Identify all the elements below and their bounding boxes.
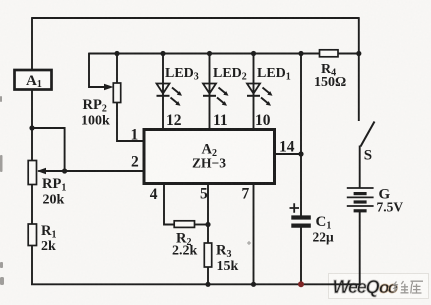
node LED1 rail junction: [251, 51, 256, 56]
battery G: [347, 187, 404, 215]
switch S: [361, 122, 375, 164]
node pin7 bottom rail junction: [251, 282, 256, 287]
wire RP2 bottom to IC pin 1: [117, 103, 144, 142]
wire R1 bottom to bottom rail: [31, 246, 33, 285]
potentiometer RP1: [28, 161, 66, 208]
node LED3 rail junction: [160, 51, 165, 56]
wire A1 bottom to junction: [31, 90, 33, 128]
LED1: [247, 54, 291, 130]
node rail junction to pin14/C1 column: [298, 51, 303, 56]
pin 10 label: [255, 112, 271, 129]
pin 7 wire: [253, 184, 255, 286]
resistor R1: [28, 223, 56, 254]
A1 amplifier box: [15, 70, 52, 90]
resistor R2: [172, 221, 208, 259]
IC U1 A2 ZH-3: [144, 130, 275, 184]
pin 5 wire: [207, 184, 209, 286]
node junction below A1: [29, 125, 34, 130]
potentiometer RP2: [81, 54, 121, 129]
pin 11 label: [213, 112, 228, 129]
node R4 right junction: [356, 51, 361, 56]
wire branch junction to pin2 net: [32, 128, 65, 171]
pin 5 label: [200, 186, 208, 203]
node junction pin2 wire: [62, 168, 67, 173]
pin 14 wire: [275, 153, 302, 155]
pin 7 label: [242, 186, 250, 203]
watermark WeeQoo维库: [329, 274, 429, 299]
wire junction to RP1 top: [31, 128, 33, 161]
wire RP2 left branch to wiper: [89, 53, 106, 87]
pin 12 label: [166, 112, 182, 129]
wire left vertical from top to A1: [31, 17, 33, 69]
LED3: [157, 54, 199, 130]
resistor R3: [204, 243, 238, 275]
wire switch to battery: [359, 146, 361, 189]
pin 14 label: [279, 139, 295, 156]
wire pin14 junction down to C1: [300, 154, 302, 216]
wire C1 to bottom rail: [300, 227, 302, 285]
scan edge smudges: [0, 96, 4, 285]
capacitor C1: [290, 203, 335, 244]
pin 4 wire: [164, 184, 175, 225]
node RP2 rail junction: [114, 51, 119, 56]
node pin5 bottom rail junction: [205, 282, 210, 287]
wire RP1 bottom to R1: [31, 185, 33, 226]
pin 4 label: [150, 186, 158, 203]
wire bottom rail: [31, 283, 360, 285]
wire rail to pin14 junction: [300, 54, 302, 155]
wire battery to bottom rail: [359, 212, 361, 285]
node LED2 rail junction: [207, 51, 212, 56]
node pin14 junction: [298, 151, 303, 156]
wire top rail: [32, 17, 359, 19]
wire LED top rail: [89, 53, 359, 55]
LED2: [203, 54, 247, 130]
pin 1 label: [131, 127, 139, 144]
resistor R4: [314, 50, 346, 90]
scan speck: [247, 241, 251, 245]
node R2/R3 junction: [205, 222, 210, 227]
wire right vertical to switch: [358, 17, 360, 121]
pin 2 label: [131, 154, 139, 171]
wire pin 2 from RP1 wiper to IC: [40, 170, 144, 172]
node C1 bottom rail junction (dark red): [298, 281, 304, 287]
